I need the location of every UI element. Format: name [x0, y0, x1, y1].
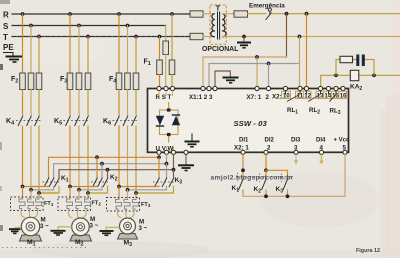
- node R-col4: [68, 12, 72, 16]
- wire DI2 drop: [265, 154, 267, 170]
- node secondary ground tap: [242, 35, 246, 39]
- wire U output: [49, 154, 160, 177]
- svg-text:3 ~: 3 ~: [139, 225, 148, 232]
- terminal X2:16: [341, 86, 345, 90]
- terminal X2:2: [264, 150, 268, 154]
- wire FT3 to motor M3: [118, 211, 135, 218]
- ground M3: [100, 227, 120, 235]
- node V-K2: [100, 162, 104, 166]
- wire column G2b: [78, 26, 80, 74]
- svg-text:T: T: [3, 33, 8, 42]
- node R-col7: [117, 12, 121, 16]
- wire T to F1 left fuse: [159, 37, 161, 61]
- SCR left (down): [156, 116, 164, 125]
- relay contact RL3: [329, 91, 337, 102]
- node M1 taps: [21, 185, 25, 189]
- contactor K2 contacts: [91, 178, 109, 188]
- relay coil KA2: [350, 70, 359, 80]
- FT2 heater elements: [67, 198, 91, 211]
- svg-text:R: R: [3, 11, 9, 20]
- ground internal SSW: [185, 134, 200, 147]
- ground X1:3: [223, 78, 239, 83]
- node DI2 tap: [264, 168, 268, 172]
- aux contact K3: [283, 178, 288, 196]
- wire K1 bottoms to M1 taps: [23, 185, 49, 187]
- FT3 heater elements: [116, 199, 139, 211]
- wire W output: [59, 154, 174, 177]
- thyristor frame: [160, 110, 179, 135]
- thyristor block stubs: [168, 103, 170, 143]
- wire G2 fuse to contacts: [69, 90, 71, 115]
- relay contact RL2: [307, 91, 321, 102]
- aux contact K2: [262, 178, 267, 196]
- wire G3 contacts to motor taps: [118, 126, 120, 187]
- terminal X7:2: [266, 86, 270, 90]
- ground M1: [9, 228, 21, 234]
- svg-text:+ Vcc: + Vcc: [334, 138, 351, 144]
- wire column G1a: [22, 14, 24, 73]
- node RC left: [334, 73, 338, 77]
- wire S corner to F1 mid fuse: [165, 26, 167, 42]
- node S-col8: [126, 24, 130, 28]
- node S-col5: [77, 24, 81, 28]
- node U-K2: [95, 155, 99, 159]
- contactor K4 contacts: [16, 116, 41, 127]
- fuse line R to trafo: [190, 11, 203, 17]
- node aux K2 bottom: [264, 194, 268, 198]
- wire fuses to transformer: [203, 13, 214, 15]
- fuse emergency: [234, 11, 248, 17]
- wire secondary bottom: [222, 36, 400, 38]
- svg-text:PE: PE: [3, 43, 14, 52]
- svg-text:T: T: [216, 6, 221, 13]
- wire column G1b: [30, 26, 32, 74]
- fuse line T to trafo: [190, 33, 203, 39]
- wire X2:11 drop: [299, 37, 301, 89]
- contactor K1 contacts: [43, 178, 61, 188]
- terminal PE aux: [184, 150, 188, 154]
- fuse F1 right: [169, 60, 175, 75]
- node T-col6: [86, 35, 90, 39]
- wire F1 outputs to terminals R S T: [159, 75, 161, 89]
- node secondary to X2:11: [298, 35, 302, 39]
- wire column G3b: [127, 26, 129, 74]
- terminal W: [171, 150, 175, 154]
- rail T: [12, 36, 190, 38]
- svg-text:SSW - 03: SSW - 03: [234, 119, 268, 128]
- svg-text:R S T: R S T: [156, 94, 172, 101]
- wire G3 fuse to contacts: [118, 90, 120, 115]
- node W-K3: [172, 168, 176, 172]
- wire emergency switch output: [272, 13, 400, 15]
- contactor K6 contacts: [113, 116, 138, 127]
- wire K2 bottoms to M2 taps: [70, 185, 97, 187]
- terminal U: [157, 150, 161, 154]
- wire X2:12 drop: [306, 14, 308, 89]
- aux contact K1: [239, 178, 244, 196]
- node thyristor bottom: [167, 133, 171, 136]
- svg-text:X2:: X2:: [272, 94, 282, 101]
- fuse F2: [20, 73, 42, 90]
- svg-text:DI1: DI1: [239, 138, 249, 144]
- svg-text:Figura 12: Figura 12: [356, 248, 380, 254]
- svg-text:FT1: FT1: [44, 201, 54, 207]
- wire K3 feeds: [158, 157, 160, 177]
- fuse F4: [116, 73, 139, 90]
- fuse F1 mid: [163, 41, 169, 55]
- fuse F3: [67, 73, 91, 90]
- wire aux K2 column: [265, 170, 267, 177]
- wire column G1c: [38, 37, 40, 74]
- dotted artifact line: [2, 247, 86, 249]
- node M2 taps: [68, 185, 72, 189]
- wire M1 columns into FT1: [22, 187, 24, 199]
- node emergency-KA2 branch: [285, 12, 289, 16]
- svg-text:FT3: FT3: [141, 202, 151, 208]
- ground transformer secondary: [237, 37, 251, 48]
- terminal stubs RST / UVW inside: [159, 91, 174, 151]
- thermal relay FT1 box: [11, 197, 44, 211]
- node V-K3: [165, 162, 169, 166]
- terminal X1:3: [213, 86, 217, 90]
- wire X7:1 drop: [256, 57, 258, 89]
- terminal X2:3: [294, 150, 298, 154]
- svg-text:DI4: DI4: [316, 138, 326, 144]
- node M3 taps: [117, 185, 121, 189]
- wire column G2a: [69, 14, 71, 73]
- wire M3 columns into FT3: [118, 187, 120, 199]
- node R feed SSW: [170, 12, 174, 16]
- terminal S: [164, 86, 168, 90]
- capacitor RC: [358, 55, 364, 67]
- terminal X2:10: [283, 86, 287, 90]
- node X7:2 tap: [267, 62, 271, 66]
- node RC right: [372, 73, 376, 77]
- svg-text:DI3: DI3: [291, 138, 301, 144]
- transformer primary coil: [211, 14, 215, 37]
- node R-col1: [21, 12, 25, 16]
- terminal X2:12: [304, 86, 308, 90]
- terminal X7:1: [255, 86, 259, 90]
- svg-text:S: S: [3, 22, 9, 31]
- FT1 heater elements: [19, 198, 42, 211]
- wire FT1 to motor M1: [21, 211, 38, 218]
- wire column G2c: [87, 37, 89, 74]
- wire G2 contacts to motor taps: [69, 126, 71, 187]
- wire aux top rail: [266, 170, 288, 177]
- wire control bus 2: [209, 64, 300, 89]
- wire column G3a: [118, 14, 120, 73]
- svg-text:12: 12: [304, 93, 311, 99]
- transformer secondary coil: [222, 14, 226, 37]
- terminal X2:4: [319, 150, 323, 154]
- terminal X1:2: [207, 86, 211, 90]
- svg-text:10: 10: [283, 93, 290, 99]
- svg-text:X7: 1: X7: 1: [247, 94, 262, 101]
- wire V output: [54, 154, 167, 177]
- SCR right (up): [172, 116, 180, 125]
- terminal X2:15: [334, 86, 338, 90]
- thermal relay FT2 box: [58, 197, 91, 211]
- thermal relay FT3 box: [107, 198, 140, 212]
- svg-text:X1:1 2 3: X1:1 2 3: [189, 94, 213, 101]
- relay contact RL1: [286, 91, 301, 102]
- svg-text:OPCIONAL: OPCIONAL: [202, 46, 238, 53]
- contactor K3 contacts: [153, 178, 175, 188]
- transformer core: [218, 12, 220, 40]
- node T feed SSW: [158, 35, 162, 39]
- wire K3 bottoms to M3 taps: [119, 185, 159, 187]
- wire K2 feeds: [96, 157, 98, 177]
- ground below SSW: [178, 154, 194, 170]
- terminal T: [170, 86, 174, 90]
- node thyristor top: [167, 108, 171, 111]
- pin box 10: [282, 91, 347, 98]
- ground PE: [3, 53, 23, 63]
- motor M3: [118, 218, 138, 239]
- node emergency-X2:12 branch: [305, 12, 309, 16]
- contactor K5 contacts: [64, 116, 91, 127]
- transformer T1 optional dashed box: [210, 5, 226, 44]
- wire R to F1 right fuse: [171, 14, 173, 60]
- node DI1 tap: [241, 168, 245, 172]
- node S-col2: [29, 24, 33, 28]
- terminal X2:5: [343, 150, 347, 154]
- terminal X2:11: [298, 86, 302, 90]
- soft starter SSW-03 box: [148, 89, 349, 153]
- svg-text:2: 2: [266, 94, 270, 101]
- wire fuse to emergency switch: [248, 13, 267, 15]
- wire RC risers: [336, 60, 374, 76]
- ground M2: [51, 227, 72, 235]
- node X7:1 tap: [255, 55, 259, 59]
- node T-col3: [37, 35, 41, 39]
- terminal X2:14: [326, 86, 330, 90]
- aux linkage dashes: [236, 176, 292, 178]
- wire emergency drop to control bus: [286, 14, 288, 57]
- fuse F1 left: [157, 60, 163, 75]
- terminal R: [157, 86, 161, 90]
- node T-col9: [134, 35, 138, 39]
- svg-text:DI2: DI2: [265, 138, 275, 144]
- svg-text:amjol2.blogspot.com.br: amjol2.blogspot.com.br: [211, 175, 294, 182]
- rail S: [12, 25, 166, 27]
- node U-K3: [157, 155, 161, 159]
- terminal V: [164, 150, 168, 154]
- wire G1 fuse to contacts: [22, 90, 24, 115]
- wire KA2 branch: [321, 75, 400, 88]
- motor M1: [20, 217, 42, 241]
- wire X7:2 drop: [268, 64, 270, 89]
- wire G1 contacts to motor taps: [22, 126, 24, 187]
- svg-text:Emergência: Emergência: [249, 3, 285, 10]
- wire FT2 to motor M2: [69, 211, 87, 219]
- wire secondary top to emergency fuse: [222, 13, 234, 15]
- node W-K2: [106, 168, 110, 172]
- wire column G3c: [135, 37, 137, 74]
- terminal X1:1: [201, 86, 205, 90]
- wire M2 columns into FT2: [69, 187, 71, 199]
- svg-text:3 ~: 3 ~: [40, 223, 49, 230]
- stub DI4 external: [321, 154, 323, 161]
- node aux K3 bottom: [286, 194, 290, 198]
- terminal X2:1: [241, 150, 245, 154]
- svg-text:3 ~: 3 ~: [90, 223, 99, 230]
- emergency pushbutton NC: [266, 8, 272, 20]
- wire X1:3 to ground: [215, 71, 230, 89]
- stub DI3 external: [295, 154, 297, 161]
- wire DI1 drop: [242, 154, 244, 177]
- motor M2: [70, 218, 92, 241]
- wire Vcc return rail: [243, 154, 345, 196]
- resistor RC: [340, 56, 353, 62]
- svg-text:FT2: FT2: [92, 201, 102, 207]
- terminal X2:13: [318, 86, 322, 90]
- rail R: [12, 13, 190, 15]
- svg-text:16: 16: [340, 93, 347, 99]
